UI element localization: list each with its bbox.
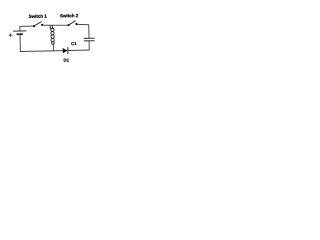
switch S1 [33,22,43,27]
wire capacitor top lead [88,25,90,38]
inductor L1 [50,26,54,51]
switch 1 right terminal dot [41,24,43,26]
switch S2 [67,21,77,26]
wire top-right (switch 2 to corner) [78,23,89,26]
wire bottom-left [20,50,63,53]
wire top-mid (switch 1 to switch 2) [43,24,68,27]
capacitor bottom lead [88,41,90,50]
inductor coil [51,28,54,31]
battery top lead [19,26,21,30]
capacitor top plate [84,37,94,39]
battery V1 [9,26,26,51]
switch 2 left terminal dot [67,24,69,26]
svg-text:Switch 1: Switch 1 [29,14,48,19]
switch 1 blade [34,22,41,26]
wire bottom-right [68,49,89,51]
inductor bottom lead [52,44,54,51]
battery bottom lead [19,35,21,51]
inductor top tick right [51,26,53,29]
battery plus sign [9,34,12,37]
diode triangle [63,48,68,53]
diode cathode bar [67,48,69,54]
battery short plate [17,33,24,35]
inductor top tick left [49,26,51,28]
svg-text:Switch 2: Switch 2 [60,13,79,18]
diode D1 [63,48,68,54]
capacitor C1 [84,38,94,50]
inductor top hook [50,27,52,30]
switch 2 blade [68,21,75,25]
capacitor bottom plate [84,40,94,42]
switch 2 right terminal dot [75,23,77,25]
svg-text:D1: D1 [63,58,69,63]
battery long plate [14,30,26,32]
svg-text:C1: C1 [71,41,77,46]
wire top-left (battery to switch 1) [20,25,33,27]
switch 1 left terminal dot [33,25,35,27]
